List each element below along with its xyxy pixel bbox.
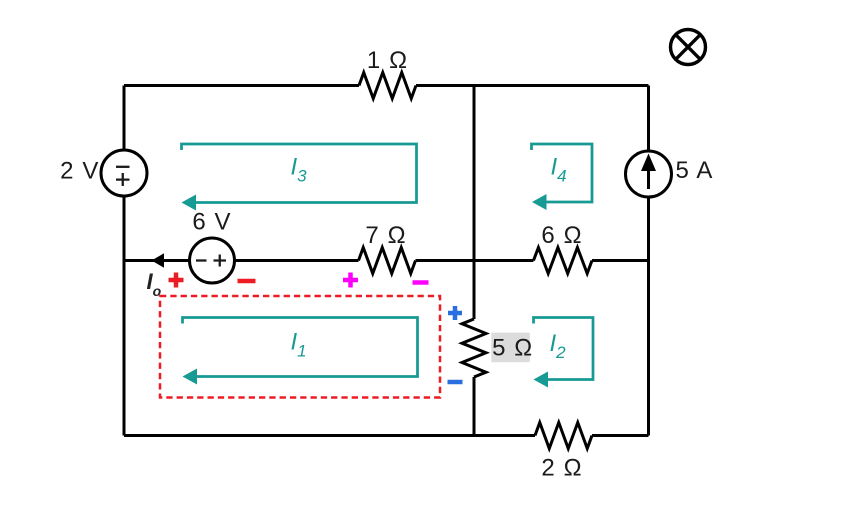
voltage source 2V minus mark: [116, 166, 130, 168]
voltage source 6V plus mark: [214, 255, 227, 267]
wire bottom-left segment: [124, 434, 535, 437]
wire center vertical bottom segment: [473, 377, 476, 436]
svg-text:Io: Io: [147, 269, 162, 299]
svg-text:2 V: 2 V: [60, 158, 99, 185]
wire middle horizontal right segment: [592, 259, 649, 262]
resistor 2-ohm zigzag: [535, 423, 592, 449]
wire middle horizontal center segment: [416, 259, 534, 262]
svg-text:I2: I2: [550, 330, 567, 362]
wire right vertical: [647, 86, 650, 436]
red dashed supermesh boundary: [160, 296, 440, 398]
wire left vertical: [123, 86, 126, 436]
wire center vertical top segment: [473, 86, 476, 320]
red plus polarity mark: [169, 273, 184, 288]
magenta plus polarity mark: [343, 273, 358, 288]
svg-text:5 A: 5 A: [676, 157, 714, 184]
svg-text:I1: I1: [291, 329, 307, 361]
resistor 1-ohm zigzag: [359, 73, 416, 99]
resistor 5-ohm vertical zigzag: [462, 319, 486, 377]
blue plus polarity mark: [448, 306, 462, 320]
current source 5A arrow: [641, 154, 656, 190]
red minus polarity mark: [238, 279, 256, 284]
mesh current loop I2: [534, 318, 594, 388]
svg-text:6 V: 6 V: [192, 209, 231, 236]
voltage source 2V plus mark: [116, 173, 130, 186]
wire top-left segment: [124, 84, 359, 87]
svg-text:6 Ω: 6 Ω: [541, 222, 582, 249]
resistor 7-ohm zigzag: [359, 248, 416, 274]
arrowhead current Io on wire: [152, 253, 165, 267]
svg-text:1 Ω: 1 Ω: [367, 47, 408, 74]
wire bottom-right segment: [592, 434, 649, 437]
wire middle horizontal left segment: [124, 259, 359, 262]
svg-text:7 Ω: 7 Ω: [365, 222, 406, 249]
svg-text:I3: I3: [291, 154, 308, 186]
voltage source 6V minus mark: [196, 259, 207, 261]
svg-text:I4: I4: [551, 154, 567, 186]
crossed-circle symbol top right: [671, 30, 706, 65]
svg-text:2 Ω: 2 Ω: [541, 455, 582, 482]
svg-text:5 Ω: 5 Ω: [492, 335, 533, 362]
wire top-right segment: [416, 84, 649, 87]
mesh current loop I4: [532, 144, 593, 210]
voltage source V1 2V circle: [101, 150, 147, 196]
gray highlight box for 5 ohm label: [491, 333, 530, 363]
mesh current loop I1: [183, 318, 418, 385]
blue minus polarity mark: [448, 380, 463, 385]
voltage source V2 6V circle: [190, 238, 235, 283]
current source 5A circle: [626, 151, 672, 197]
resistor 6-ohm zigzag: [534, 248, 593, 274]
mesh current loop I3: [182, 144, 417, 211]
magenta minus polarity mark: [413, 280, 429, 285]
